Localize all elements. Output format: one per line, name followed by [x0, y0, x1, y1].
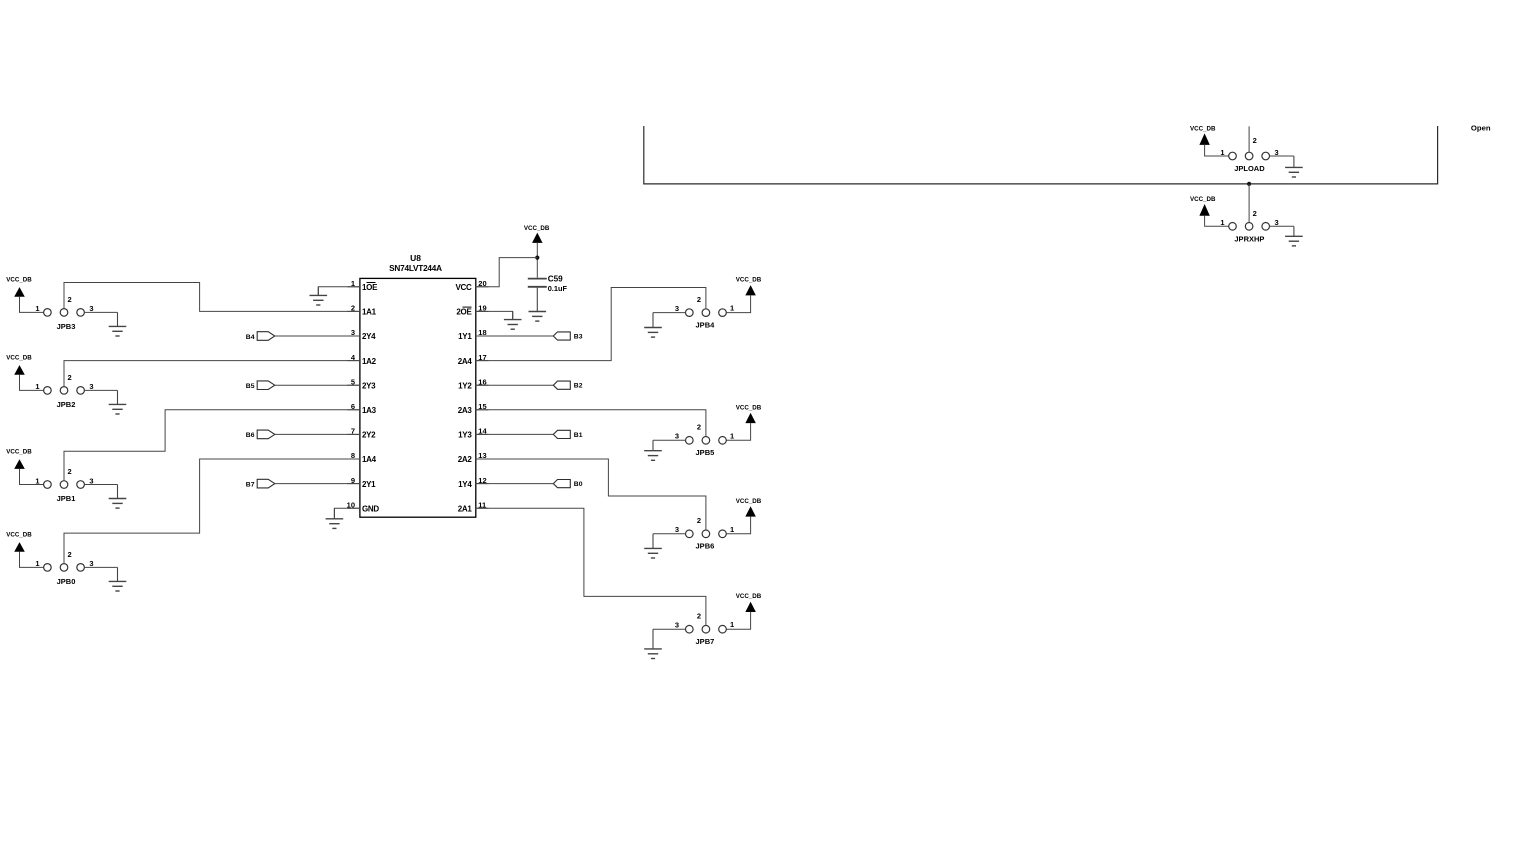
- svg-text:2A2: 2A2: [458, 455, 473, 464]
- svg-text:1OE: 1OE: [362, 283, 378, 292]
- svg-text:1A2: 1A2: [362, 357, 377, 366]
- svg-text:Open: Open: [1471, 123, 1491, 132]
- svg-text:3: 3: [1275, 148, 1279, 157]
- svg-text:JPRXHP: JPRXHP: [1234, 234, 1264, 243]
- svg-text:U8: U8: [410, 253, 421, 263]
- svg-text:VCC_DB: VCC_DB: [6, 276, 32, 283]
- svg-text:3: 3: [89, 476, 93, 485]
- svg-text:3: 3: [675, 525, 679, 534]
- svg-text:JPB0: JPB0: [57, 577, 76, 586]
- svg-text:JPB7: JPB7: [696, 637, 715, 646]
- svg-text:2Y2: 2Y2: [362, 431, 376, 440]
- svg-text:1: 1: [730, 620, 734, 629]
- svg-text:2A4: 2A4: [458, 357, 473, 366]
- svg-text:1: 1: [730, 525, 734, 534]
- svg-text:1Y3: 1Y3: [458, 431, 472, 440]
- svg-text:B3: B3: [574, 334, 583, 341]
- svg-text:2: 2: [68, 373, 72, 382]
- svg-text:2A1: 2A1: [458, 504, 473, 513]
- svg-text:3: 3: [675, 304, 679, 313]
- svg-text:JPB1: JPB1: [57, 494, 76, 503]
- svg-text:2OE: 2OE: [456, 308, 472, 317]
- svg-text:B4: B4: [246, 334, 255, 341]
- svg-text:3: 3: [675, 432, 679, 441]
- svg-text:1Y1: 1Y1: [458, 332, 472, 341]
- svg-text:1: 1: [35, 304, 39, 313]
- svg-text:JPB3: JPB3: [57, 322, 76, 331]
- svg-text:B6: B6: [246, 432, 255, 439]
- svg-text:B2: B2: [574, 383, 583, 390]
- svg-text:2: 2: [68, 550, 72, 559]
- svg-text:VCC_DB: VCC_DB: [736, 593, 762, 600]
- svg-text:3: 3: [89, 382, 93, 391]
- svg-text:JPB2: JPB2: [57, 400, 76, 409]
- svg-text:VCC_DB: VCC_DB: [6, 354, 32, 361]
- svg-text:B1: B1: [574, 432, 583, 439]
- svg-text:2: 2: [1253, 209, 1257, 218]
- svg-text:1: 1: [35, 559, 39, 568]
- svg-text:VCC_DB: VCC_DB: [524, 225, 550, 232]
- svg-text:2: 2: [68, 467, 72, 476]
- svg-text:SN74LVT244A: SN74LVT244A: [389, 264, 442, 273]
- svg-text:C59: C59: [548, 275, 563, 284]
- svg-text:2: 2: [697, 423, 701, 432]
- svg-text:2A3: 2A3: [458, 406, 473, 415]
- svg-text:JPLOAD: JPLOAD: [1234, 164, 1265, 173]
- svg-text:VCC_DB: VCC_DB: [1190, 196, 1216, 203]
- svg-text:3: 3: [89, 304, 93, 313]
- svg-text:3: 3: [1275, 218, 1279, 227]
- svg-text:B0: B0: [574, 481, 583, 488]
- svg-text:JPB4: JPB4: [696, 320, 716, 329]
- svg-text:VCC_DB: VCC_DB: [736, 498, 762, 505]
- svg-text:3: 3: [89, 559, 93, 568]
- svg-text:1: 1: [1220, 218, 1224, 227]
- svg-text:2Y1: 2Y1: [362, 480, 376, 489]
- svg-text:1A3: 1A3: [362, 406, 377, 415]
- svg-text:2: 2: [68, 295, 72, 304]
- svg-text:VCC_DB: VCC_DB: [736, 277, 762, 284]
- svg-text:2Y3: 2Y3: [362, 381, 376, 390]
- svg-text:JPB6: JPB6: [696, 542, 715, 551]
- svg-text:GND: GND: [362, 504, 379, 513]
- svg-text:VCC_DB: VCC_DB: [6, 449, 32, 456]
- svg-text:3: 3: [675, 621, 679, 630]
- svg-text:1: 1: [35, 476, 39, 485]
- svg-text:0.1uF: 0.1uF: [548, 284, 568, 293]
- svg-text:JPB5: JPB5: [696, 448, 715, 457]
- svg-text:VCC: VCC: [456, 283, 473, 292]
- svg-text:2: 2: [697, 295, 701, 304]
- svg-text:1Y4: 1Y4: [458, 480, 472, 489]
- svg-text:2: 2: [697, 516, 701, 525]
- svg-text:1Y2: 1Y2: [458, 381, 472, 390]
- svg-text:1: 1: [730, 431, 734, 440]
- svg-text:2: 2: [697, 611, 701, 620]
- svg-text:1: 1: [730, 304, 734, 313]
- svg-text:1: 1: [35, 382, 39, 391]
- svg-text:1: 1: [1220, 148, 1224, 157]
- svg-text:1A4: 1A4: [362, 455, 377, 464]
- svg-text:2Y4: 2Y4: [362, 332, 376, 341]
- svg-text:VCC_DB: VCC_DB: [736, 404, 762, 411]
- svg-text:1A1: 1A1: [362, 308, 377, 317]
- svg-text:2: 2: [1253, 136, 1257, 145]
- svg-text:VCC_DB: VCC_DB: [1190, 126, 1216, 133]
- svg-text:B5: B5: [246, 383, 255, 390]
- svg-text:B7: B7: [246, 481, 255, 488]
- svg-text:VCC_DB: VCC_DB: [6, 531, 32, 538]
